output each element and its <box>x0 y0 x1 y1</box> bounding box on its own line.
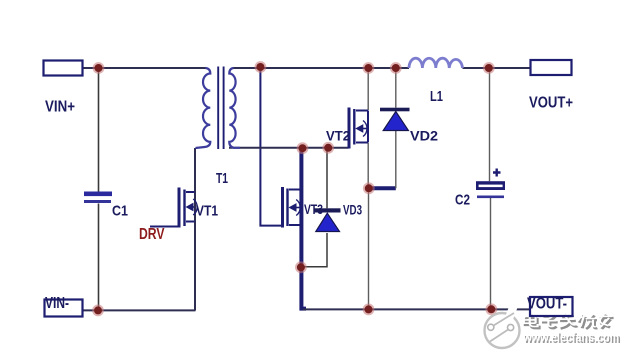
svg-text:VT1: VT1 <box>196 203 218 220</box>
junction node VD3 cathode / VT2 gate <box>322 142 334 154</box>
transformer T1 core <box>218 67 223 150</box>
wire VD2 cathode lead from top rail <box>395 68 397 108</box>
svg-text:VD2: VD2 <box>410 128 438 144</box>
wire secondary bottom rail to VT2 gate <box>229 147 349 149</box>
wire VT1 gate stub (DRV input) <box>150 226 178 228</box>
wire bottom rail primary side (VIN- to VT1 source) <box>83 309 196 311</box>
junction node C2 return on bottom rail <box>485 303 497 315</box>
wire C2 top lead from top rail node <box>489 68 491 181</box>
svg-text:www.elecfans.com: www.elecfans.com <box>522 330 619 345</box>
transistor VT3 <box>283 187 302 228</box>
svg-text:L1: L1 <box>430 88 443 105</box>
svg-text:VOUT-: VOUT- <box>527 296 567 313</box>
diode VD2 <box>380 108 410 131</box>
transformer T1 secondary winding <box>229 68 240 148</box>
terminal VOUT- <box>530 297 573 316</box>
terminal VOUT+ <box>531 60 572 75</box>
terminal VIN+ <box>44 61 83 76</box>
wire VT2 source node down to bottom rail <box>368 188 370 309</box>
wire top rail after L1 to VOUT+ terminal <box>463 67 531 69</box>
junction node secondary bottom / VT3 drain <box>297 142 309 154</box>
inductor L1 <box>409 58 463 68</box>
wire bottom rail secondary side to VOUT- <box>303 308 531 310</box>
transistor VT2 <box>349 108 368 149</box>
junction node VD2 cathode <box>390 62 402 74</box>
junction node VT2 return on bottom rail <box>363 304 375 316</box>
junction node L1 output / C2 <box>483 62 495 74</box>
transformer T1 primary winding <box>196 68 211 148</box>
svg-text:C2: C2 <box>455 192 470 209</box>
diode VD3 <box>314 208 341 231</box>
capacitor C2 bottom plate <box>477 196 504 199</box>
watermark text dianzifashaoyou (stroke approximation, embossed) <box>525 314 613 329</box>
svg-text:VOUT+: VOUT+ <box>529 95 573 112</box>
svg-text:T1: T1 <box>216 170 228 187</box>
junction node VIN- / C1 <box>92 305 104 317</box>
watermark logo circle <box>485 307 520 349</box>
wire C1 bottom lead down to VIN- rail <box>98 204 100 311</box>
junction node secondary top / VT3 gate <box>255 61 267 73</box>
wire thick mid node to VD2 anode <box>367 186 396 190</box>
svg-text:DRV: DRV <box>139 226 165 243</box>
junction node VT3 source / VD3 anode <box>295 261 307 273</box>
junction node VT2 drain <box>363 62 375 74</box>
transistor VT1 <box>179 188 197 228</box>
wire VD3 anode lead down and left to VT3 source node <box>302 233 327 267</box>
wire VD3 cathode lead vertical <box>326 148 328 208</box>
svg-text:VD3: VD3 <box>343 202 362 218</box>
capacitor C2 plus sign <box>493 169 501 177</box>
svg-text:VIN+: VIN+ <box>45 99 75 116</box>
wire C2 bottom lead down to bottom rail <box>490 198 492 309</box>
wire VT2 drain lead from top rail <box>367 68 369 110</box>
wire thick VT3 source to bottom rail corner <box>301 267 306 308</box>
svg-text:VIN-: VIN- <box>45 295 69 312</box>
svg-text:C1: C1 <box>112 203 128 220</box>
wire VD2 anode lead down to mid node <box>395 131 397 189</box>
wire top rail left (VIN+ to transformer primary) <box>83 67 206 69</box>
junction node VIN+ / C1 <box>93 62 105 74</box>
wire top rail right (secondary top to VOUT+) <box>234 67 410 69</box>
wire cross-coupling from top rail down to VT3 gate <box>260 67 282 226</box>
wire VT2 source lead down to mid node <box>367 143 369 188</box>
svg-text:VT2: VT2 <box>326 128 350 144</box>
capacitor C1 bottom plate <box>84 200 111 203</box>
terminal VIN- <box>45 300 83 317</box>
svg-text:VT3: VT3 <box>304 201 323 217</box>
capacitor C2 top plate <box>476 181 505 190</box>
junction node VT2 source / VD2 anode <box>363 182 375 194</box>
capacitor C1 top plate <box>84 192 112 197</box>
wire thick VT3 drain branch vertical <box>299 148 303 267</box>
wire VT1 drain/source lead vertical <box>194 148 196 310</box>
wire C1 branch vertical from VIN+ node down to C1 top <box>98 68 100 192</box>
